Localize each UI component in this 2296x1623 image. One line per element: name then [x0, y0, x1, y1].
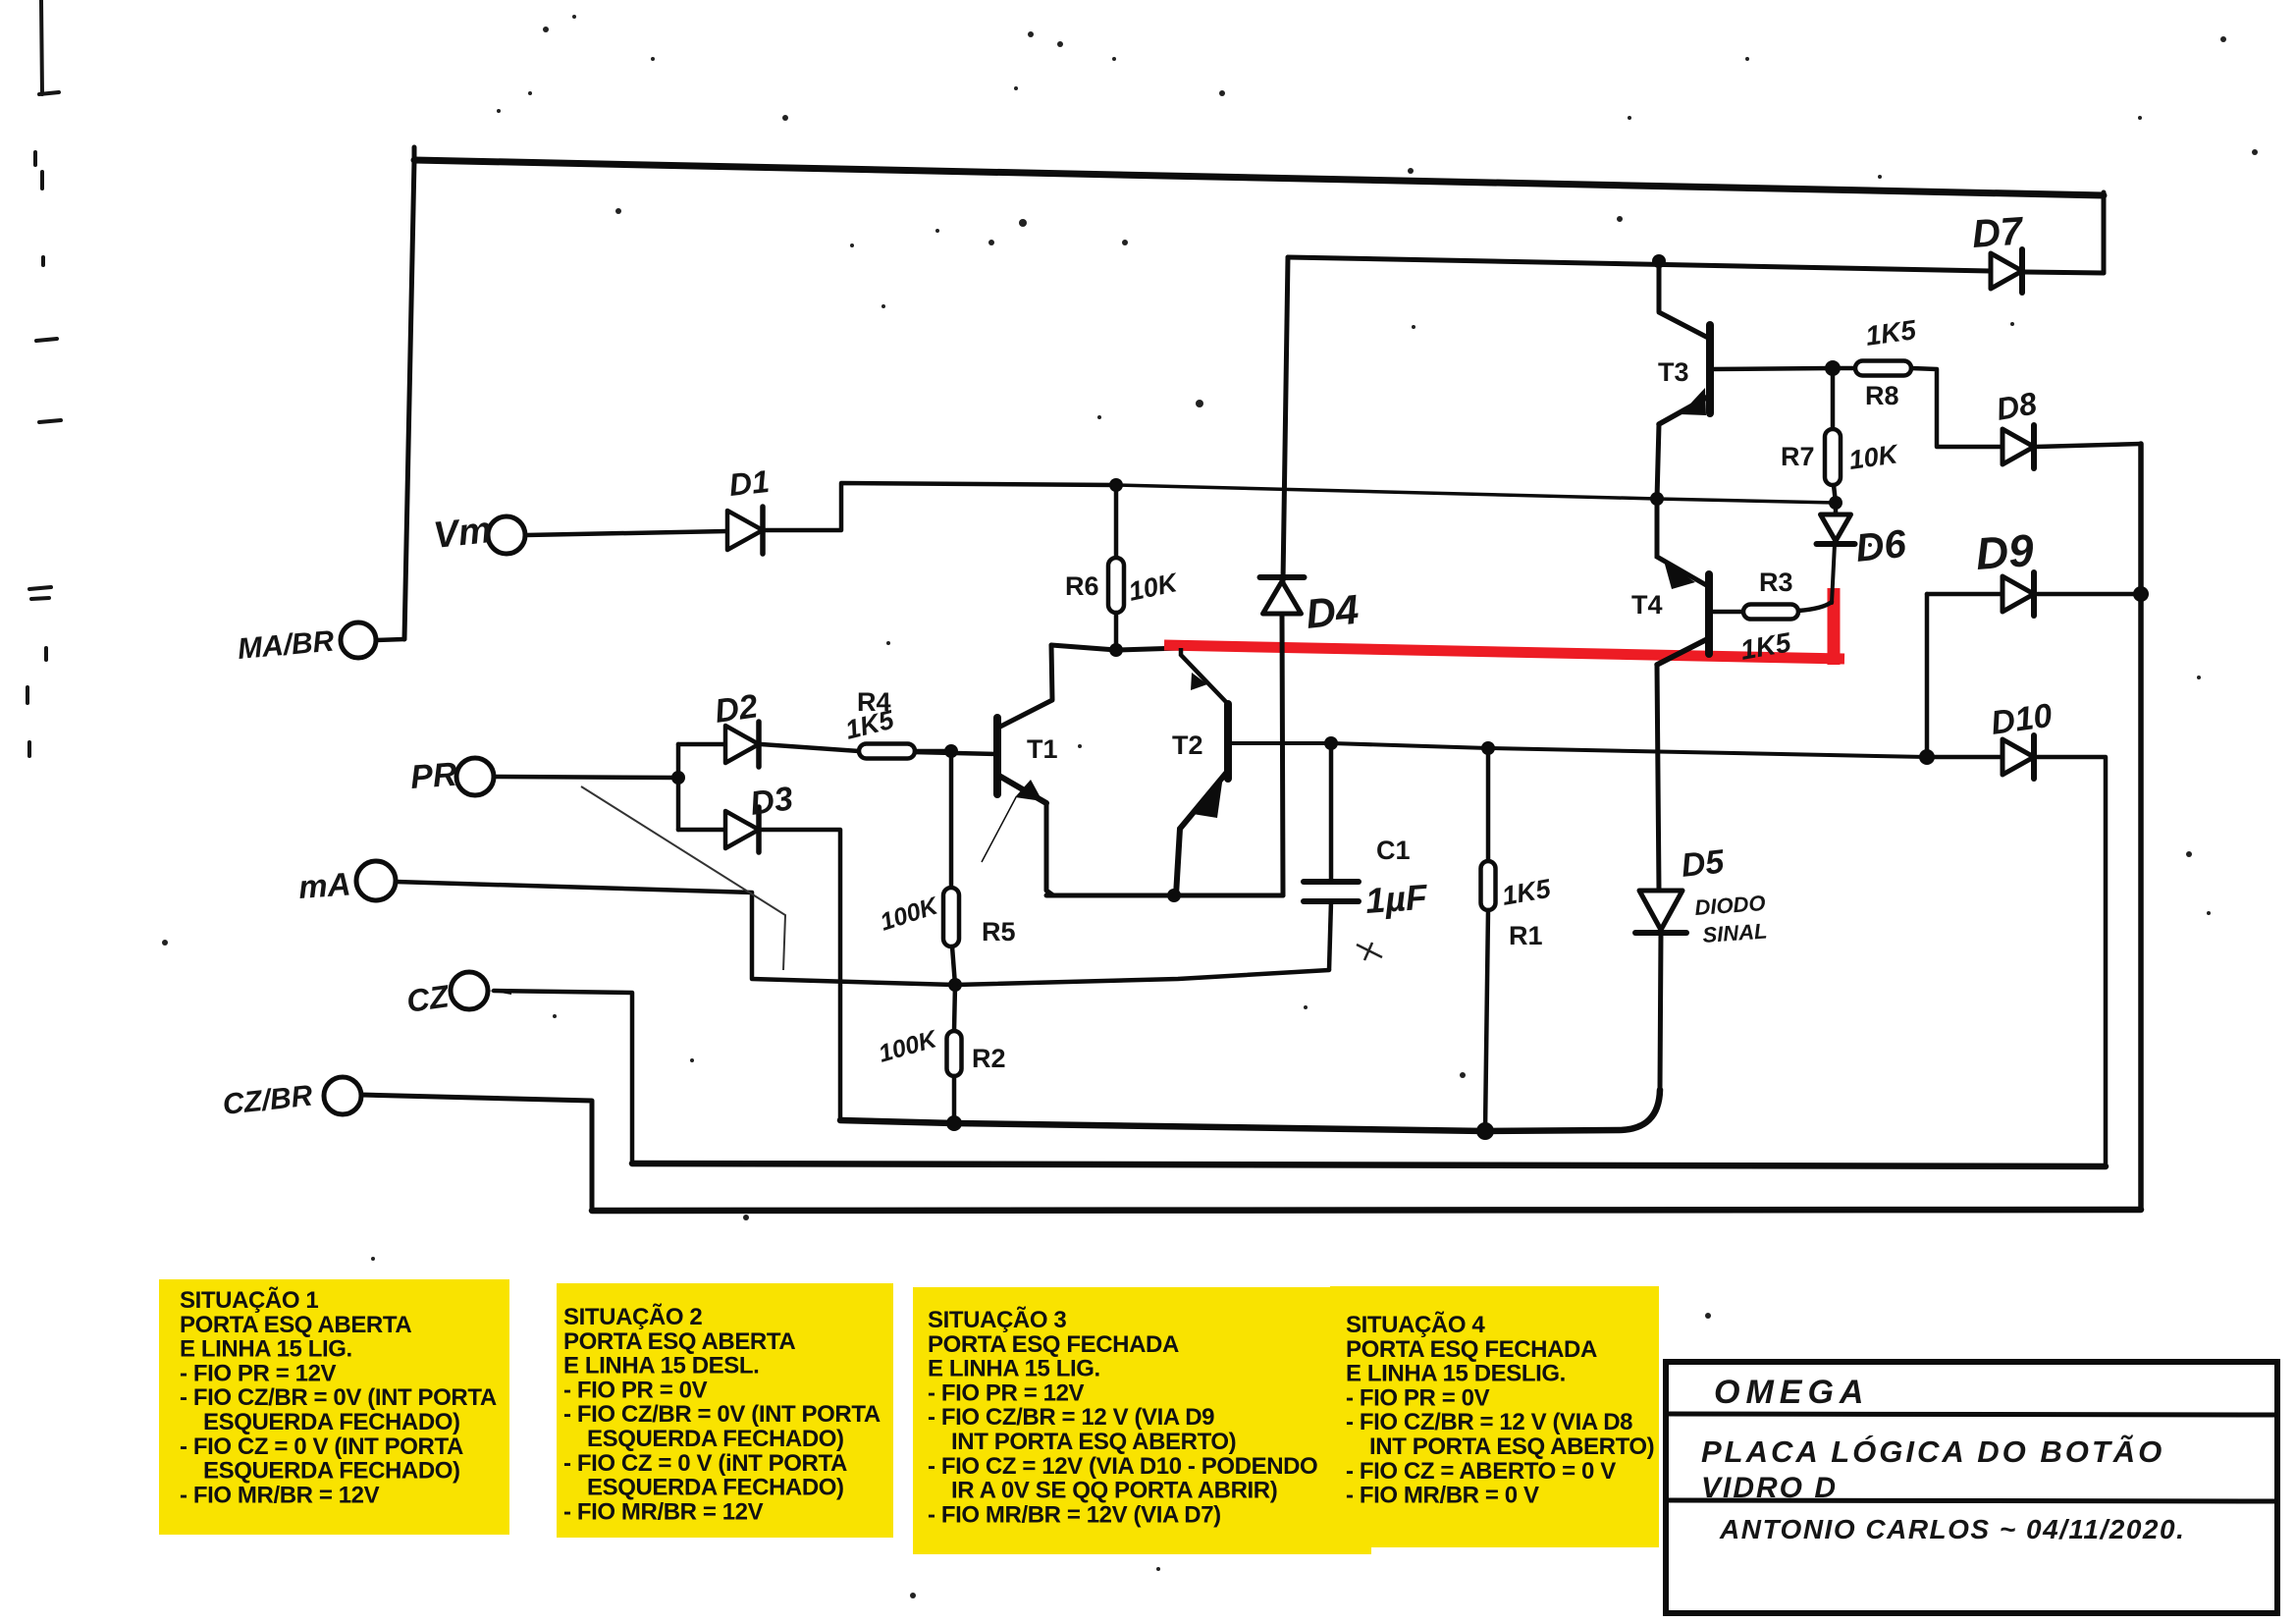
resistor R5 — [943, 888, 959, 947]
svg-text:R6: R6 — [1065, 571, 1099, 601]
svg-text:PORTA ESQ ABERTA: PORTA ESQ ABERTA — [180, 1312, 411, 1338]
node T3 collector at D7 rail — [1652, 254, 1666, 268]
svg-text:R8: R8 — [1865, 381, 1899, 410]
wire D4 cathode lead from D7 rail — [1283, 257, 1288, 581]
node T3 base R7 R8 junction — [1825, 360, 1841, 376]
svg-text:R5: R5 — [982, 917, 1016, 947]
node R4-R5-base junction — [944, 744, 958, 758]
wire emitter tie rail — [1046, 893, 1283, 898]
resistor R3 — [1743, 605, 1798, 620]
wire R6 top lead — [1114, 485, 1119, 558]
wire CZ/BR to bottom rail C — [361, 1095, 592, 1211]
wire R8 to D8 — [1911, 368, 2002, 447]
svg-text:D3: D3 — [748, 780, 795, 823]
wire to R8 — [1833, 366, 1855, 371]
terminal CZ/BR — [324, 1077, 361, 1114]
svg-text:D7: D7 — [1971, 209, 2026, 256]
svg-text:- FIO CZ/BR = 0V (INT PORTA: - FIO CZ/BR = 0V (INT PORTA — [563, 1401, 881, 1428]
svg-text:- FIO PR = 0V: - FIO PR = 0V — [563, 1377, 708, 1403]
transistor T1 — [913, 718, 1046, 862]
wire bottom rail B — [632, 1163, 2106, 1166]
note SITUACAO 2 box — [557, 1283, 893, 1538]
note SITUACAO 3 box — [913, 1287, 1371, 1554]
transistor T3 — [1659, 325, 1833, 424]
wire top rail (MR/BR net) — [414, 160, 2104, 195]
terminal PR — [456, 758, 494, 795]
svg-text:- FIO PR = 12V: - FIO PR = 12V — [928, 1380, 1085, 1406]
svg-text:- FIO CZ = 0 V (iNT PORTA: - FIO CZ = 0 V (iNT PORTA — [563, 1450, 847, 1477]
diode D8 — [2002, 425, 2034, 468]
svg-text:E LINHA 15 LIG.: E LINHA 15 LIG. — [928, 1356, 1100, 1382]
svg-text:PORTA ESQ ABERTA: PORTA ESQ ABERTA — [563, 1328, 795, 1355]
wire PR to diode bracket — [494, 777, 678, 778]
wire D6 top lead — [1834, 503, 1839, 514]
svg-text:D6: D6 — [1853, 522, 1908, 570]
diode D9 — [2002, 572, 2034, 616]
node R1 top junction — [1481, 741, 1495, 755]
svg-text:D2: D2 — [713, 687, 760, 730]
wire T4 emitter to D5 — [1657, 665, 1659, 891]
svg-text:E LINHA 15 DESL.: E LINHA 15 DESL. — [563, 1353, 759, 1380]
svg-text:- FIO PR = 12V: - FIO PR = 12V — [180, 1360, 337, 1386]
wire R7 bottom lead — [1834, 485, 1836, 503]
wire D3 down to bottom rail A — [761, 830, 840, 1120]
wire D5 to bottom rail A — [1660, 933, 1661, 1090]
wire T2 base rail to C1 R1 D10 — [1228, 743, 1927, 757]
svg-text:D4: D4 — [1304, 586, 1361, 637]
note SITUACAO 4 box — [1330, 1286, 1659, 1547]
wire T4 base lead — [1712, 610, 1743, 615]
wire T1 emitter down — [1046, 803, 1053, 895]
terminal MA/BR — [341, 622, 376, 658]
resistor R2 — [947, 1031, 962, 1076]
svg-text:SINAL: SINAL — [1702, 918, 1769, 947]
wire R6 bottom lead — [1114, 613, 1119, 650]
svg-text:- FIO CZ/BR = 12 V (VIA D9: - FIO CZ/BR = 12 V (VIA D9 — [928, 1404, 1214, 1431]
wire T3 emitter down — [1657, 424, 1659, 499]
wire D7 rail to D4 top — [1288, 257, 1991, 271]
transistor T2 — [1176, 648, 1228, 895]
capacitor C1 — [1304, 882, 1359, 970]
svg-text:- FIO PR = 0V: - FIO PR = 0V — [1346, 1384, 1490, 1411]
svg-text:R3: R3 — [1759, 568, 1793, 597]
diode D3 — [725, 807, 759, 852]
svg-text:PORTA ESQ FECHADA: PORTA ESQ FECHADA — [928, 1331, 1179, 1358]
node D10 junction — [1919, 749, 1935, 765]
svg-text:VIDRO D: VIDRO D — [1701, 1472, 1838, 1504]
wire right rail down — [2138, 444, 2144, 1210]
svg-text:PLACA LÓGICA DO BOTÃO: PLACA LÓGICA DO BOTÃO — [1701, 1434, 2164, 1469]
svg-text:R7: R7 — [1781, 442, 1815, 471]
svg-text:1µF: 1µF — [1364, 877, 1429, 921]
svg-text:ANTONIO CARLOS ~ 04/11/2020.: ANTONIO CARLOS ~ 04/11/2020. — [1719, 1514, 2185, 1544]
wire top-left corner overshoot — [412, 147, 417, 163]
svg-text:D8: D8 — [1994, 385, 2040, 427]
resistor R7 — [1825, 429, 1841, 485]
red highlight net marker vertical — [1828, 588, 1841, 665]
wire VM to D1 — [526, 531, 727, 535]
svg-text:ESQUERDA FECHADO): ESQUERDA FECHADO) — [203, 1458, 460, 1485]
svg-text:INT PORTA ESQ ABERTO): INT PORTA ESQ ABERTO) — [1369, 1434, 1654, 1460]
resistor R8 — [1855, 361, 1911, 376]
wire C1 top lead — [1329, 743, 1334, 880]
wire bottom rail A — [840, 1090, 1660, 1131]
wire to D9 — [1927, 592, 2002, 597]
note SITUACAO 1 box — [159, 1279, 509, 1535]
node R5-R2 tap junction — [948, 978, 962, 992]
wire MA rail to C1 bottom — [396, 882, 1329, 985]
wire bottom rail C — [592, 1210, 2141, 1211]
wire D6 to R3 node — [1832, 544, 1835, 603]
wire left vertical to MA/BR — [404, 160, 414, 639]
svg-text:T4: T4 — [1631, 590, 1663, 620]
diode D10 — [2002, 735, 2034, 779]
svg-text:CZ: CZ — [404, 978, 453, 1019]
node R7 D6 junction — [1829, 496, 1842, 510]
svg-text:OMEGA: OMEGA — [1714, 1374, 1869, 1411]
svg-text:- FIO MR/BR = 12V: - FIO MR/BR = 12V — [563, 1498, 764, 1525]
transistor T4 — [1657, 499, 1709, 665]
wire D9-D10 bracket — [1925, 594, 1930, 757]
svg-text:D5: D5 — [1680, 843, 1727, 885]
node R1 bottom junction — [1476, 1122, 1494, 1140]
svg-text:- FIO CZ/BR = 12 V (VIA D8: - FIO CZ/BR = 12 V (VIA D8 — [1346, 1409, 1632, 1435]
wire R4 to T1 base — [915, 749, 951, 754]
svg-text:D1: D1 — [727, 463, 771, 503]
svg-text:SITUAÇÃO 3: SITUAÇÃO 3 — [928, 1306, 1066, 1333]
wire D9 to right rail — [2034, 592, 2141, 597]
diode D2 — [725, 722, 759, 767]
svg-text:SITUAÇÃO 2: SITUAÇÃO 2 — [563, 1303, 702, 1330]
wire MA/BR stub — [376, 639, 404, 640]
svg-text:R2: R2 — [972, 1044, 1006, 1073]
node T3-T4 junction on base rail — [1650, 492, 1664, 506]
wire D1 to R6 top node — [765, 483, 1116, 530]
svg-text:PORTA ESQ FECHADA: PORTA ESQ FECHADA — [1346, 1336, 1597, 1363]
svg-text:T1: T1 — [1027, 734, 1058, 764]
wire to D2 — [678, 742, 725, 747]
svg-text:- FIO MR/BR = 12V: - FIO MR/BR = 12V — [180, 1482, 380, 1508]
svg-text:mA: mA — [297, 865, 352, 905]
svg-text:- FIO CZ/BR = 0V (INT PORTA: - FIO CZ/BR = 0V (INT PORTA — [180, 1384, 497, 1411]
diode D4 — [1260, 577, 1305, 614]
terminal CZ — [451, 972, 488, 1009]
wire CZ to bottom rail B — [494, 991, 632, 1163]
wire T1 collector — [998, 645, 1052, 728]
terminal MA — [356, 861, 396, 900]
wire R1 top lead — [1486, 748, 1491, 861]
node PR junction — [671, 771, 685, 784]
wire D7 cathode side — [2024, 272, 2104, 273]
node R2 bottom junction — [946, 1115, 962, 1131]
svg-text:SITUAÇÃO 4: SITUAÇÃO 4 — [1346, 1311, 1485, 1338]
svg-text:ESQUERDA FECHADO): ESQUERDA FECHADO) — [203, 1409, 460, 1435]
diode D1 — [727, 507, 763, 554]
svg-text:E LINHA 15 DESLIG.: E LINHA 15 DESLIG. — [1346, 1361, 1566, 1387]
wire R2 bottom lead — [952, 1076, 957, 1123]
wire CZ arrow lead — [489, 989, 511, 995]
node emitter junction — [1167, 889, 1181, 902]
svg-text:INT PORTA ESQ ABERTO): INT PORTA ESQ ABERTO) — [951, 1429, 1236, 1455]
svg-text:- FIO MR/BR = 0 V: - FIO MR/BR = 0 V — [1346, 1483, 1539, 1509]
wire R3 to D6 node — [1798, 602, 1832, 611]
svg-text:T3: T3 — [1658, 357, 1689, 387]
diode D6 — [1817, 514, 1855, 544]
wire T3 collector — [1659, 261, 1710, 339]
resistor R4 — [859, 744, 915, 759]
wire D8 to right rail — [2036, 444, 2141, 447]
wire R5 bottom lead — [952, 947, 955, 985]
title block — [1666, 1362, 2277, 1613]
wire right drop to D7 — [2102, 192, 2107, 273]
svg-text:E LINHA 15 LIG.: E LINHA 15 LIG. — [180, 1336, 352, 1363]
terminal VM — [488, 516, 525, 554]
diode D5 — [1635, 891, 1686, 933]
wire R5 top lead — [949, 752, 954, 888]
wire D2-D3 bracket — [676, 744, 681, 830]
wire to D10 — [1927, 755, 2002, 760]
node R6 top junction — [1109, 478, 1123, 492]
svg-text:D9: D9 — [1974, 524, 2036, 579]
svg-text:R1: R1 — [1509, 921, 1543, 950]
wire R1 bottom lead — [1485, 910, 1488, 1131]
svg-text:- FIO CZ = 0 V (INT PORTA: - FIO CZ = 0 V (INT PORTA — [180, 1434, 463, 1460]
wire collector tie line — [1051, 645, 1181, 650]
wire D2 to R4 — [761, 744, 859, 751]
svg-text:SITUAÇÃO 1: SITUAÇÃO 1 — [180, 1286, 318, 1314]
wire base rail R6-top to R7-bottom — [1116, 485, 1836, 503]
svg-text:PR: PR — [409, 756, 458, 796]
resistor R6 — [1108, 558, 1124, 613]
resistor R1 — [1481, 861, 1496, 910]
svg-text:ESQUERDA FECHADO): ESQUERDA FECHADO) — [587, 1475, 844, 1501]
svg-text:C1: C1 — [1376, 836, 1411, 865]
wire D10 to bottom rail B — [2034, 757, 2106, 1166]
svg-text:IR A 0V SE QQ PORTA ABRIR): IR A 0V SE QQ PORTA ABRIR) — [951, 1478, 1277, 1504]
wire to D3 — [678, 828, 725, 833]
red highlight net marker horizontal — [1164, 645, 1844, 659]
node C1 top junction — [1324, 736, 1338, 750]
wire R7 top lead — [1831, 368, 1836, 429]
svg-text:ESQUERDA FECHADO): ESQUERDA FECHADO) — [587, 1426, 844, 1452]
diode D7 — [1991, 249, 2022, 293]
svg-text:- FIO MR/BR = 12V (VIA D7): - FIO MR/BR = 12V (VIA D7) — [928, 1501, 1221, 1528]
wire D4 anode to emitter rail — [1282, 614, 1283, 895]
node D9 right rail junction — [2133, 586, 2149, 602]
svg-text:Vm: Vm — [432, 510, 494, 557]
node R6 bottom junction — [1109, 643, 1123, 657]
svg-text:T2: T2 — [1172, 730, 1203, 760]
svg-text:- FIO CZ = ABERTO = 0 V: - FIO CZ = ABERTO = 0 V — [1346, 1458, 1616, 1485]
svg-text:DIODO: DIODO — [1694, 891, 1767, 920]
svg-text:- FIO CZ = 12V (VIA D10 - PODE: - FIO CZ = 12V (VIA D10 - PODENDO — [928, 1453, 1317, 1480]
wire R2 top lead — [954, 985, 955, 1031]
